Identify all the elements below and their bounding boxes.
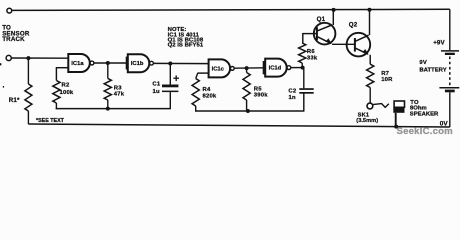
svg-text:33k: 33k [307, 56, 318, 62]
op-amp gate IC1b (NAND) [128, 54, 154, 72]
label R5 390k [254, 86, 268, 98]
svg-text:1u: 1u [153, 89, 160, 95]
svg-text:820k: 820k [203, 94, 217, 100]
node junction R5 bottom [246, 109, 250, 113]
resistor R2 [53, 81, 60, 110]
op-amp gate IC1a (NAND) [68, 54, 94, 72]
svg-text:IC1b: IC1b [131, 61, 144, 67]
transistor Q2 [347, 33, 371, 57]
wire IC1c output to IC1d [234, 67, 263, 69]
label IC1b [131, 61, 144, 67]
wire IC1a lower input from R2 [56, 67, 68, 80]
svg-text:1n: 1n [289, 95, 296, 101]
wire IC1c lower input from R4 [196, 73, 209, 79]
connector jack plug symbol [393, 101, 404, 127]
wire battery dashed middle [449, 57, 451, 87]
wire bottom 0V rail [28, 124, 449, 127]
label IC1d [269, 66, 282, 72]
node junction R5 top [245, 66, 249, 70]
label C1 + polarity [173, 75, 179, 81]
wire Q1 collector to rail [332, 10, 334, 25]
wire IC1d input tie bar [263, 61, 265, 74]
label R1* [9, 97, 20, 104]
transistor Q1 [314, 23, 336, 45]
watermark SeekIC.com [397, 126, 453, 137]
label NOTE block [168, 27, 204, 48]
wire SK1 hook contact [373, 104, 389, 108]
svg-text:390k: 390k [254, 93, 268, 99]
terminal T1 (top, to sensor track) [7, 8, 12, 13]
resistor R6 [299, 43, 306, 68]
resistor R5 [243, 68, 250, 111]
svg-text:SeekIC.com: SeekIC.com [397, 126, 453, 137]
label R6 33k [307, 49, 318, 62]
resistor R1 [25, 58, 32, 124]
node junction IC1d out / R6 / C2 [301, 66, 305, 70]
svg-text:C2: C2 [288, 89, 296, 95]
wire Q2 emitter to R7 [369, 55, 371, 64]
svg-text:IC1a: IC1a [71, 61, 84, 67]
wire Q1 emitter to Q2 base [332, 43, 355, 45]
label R7 10R [381, 71, 393, 83]
label R4 820k [203, 87, 217, 99]
label *SEE TEXT [36, 118, 65, 124]
node junction jack on rail [394, 125, 398, 129]
svg-text:10R: 10R [381, 77, 393, 83]
node junction C1 top [168, 62, 172, 66]
resistor R4 [192, 79, 199, 112]
svg-text:9V: 9V [419, 60, 427, 66]
terminal T2 (bottom, to sensor track) [6, 55, 11, 60]
label C2 1n [288, 89, 296, 101]
svg-text:R4: R4 [203, 87, 211, 93]
wire R2-R3-C1 bottom join [56, 108, 171, 110]
label 0V [440, 120, 449, 127]
svg-text:R2: R2 [62, 83, 70, 89]
svg-text:IC1d: IC1d [269, 66, 282, 72]
svg-text:R6: R6 [307, 49, 315, 55]
svg-text:Q1: Q1 [317, 16, 326, 23]
svg-text:TRACK: TRACK [2, 36, 25, 43]
label TO SENSOR TRACK [2, 24, 30, 43]
svg-text:R1*: R1* [9, 97, 20, 104]
wire T2 to IC1a input [11, 57, 68, 59]
wire Q1 base from R6 top [303, 33, 317, 43]
svg-text:R3: R3 [114, 85, 122, 91]
node junction Q2 collector on rail [368, 8, 372, 12]
label IC1a [71, 61, 84, 67]
wire R4-R5-C2 bottom join [195, 93, 304, 111]
wire IC1b output to IC1c [153, 62, 209, 64]
battery B1 cell 1 [441, 51, 459, 55]
speck left edge [0, 63, 4, 87]
battery B1 cell 2 [439, 88, 459, 92]
svg-text:*SEE TEXT: *SEE TEXT [36, 118, 65, 124]
label R2 100k [60, 83, 74, 97]
svg-text:100k: 100k [60, 90, 74, 96]
label Q2 [349, 22, 358, 29]
op-amp gate IC1c (NAND) [209, 59, 235, 77]
wire Q2 collector to rail [369, 10, 371, 36]
node junction IC1a out / R3 [106, 61, 110, 65]
label TO 8Ohm SPEAKER [410, 100, 439, 118]
svg-text:47k: 47k [114, 92, 125, 98]
wire top +9V rail [12, 9, 450, 10]
resistor R3 [104, 63, 111, 109]
op-amp gate IC1d (NAND) [265, 59, 291, 77]
label SK1 (3.5mm) [356, 112, 378, 124]
resistor R7 [367, 64, 374, 103]
terminal SK1 socket [367, 103, 373, 109]
svg-text:IC1c: IC1c [212, 66, 225, 72]
capacitor C1 (electrolytic) [162, 64, 178, 110]
label +9V [433, 39, 445, 46]
svg-text:R5: R5 [254, 86, 262, 92]
node junction T2/R1 [26, 56, 30, 60]
wire IC1a output to IC1b [94, 62, 127, 64]
svg-text:+9V: +9V [433, 39, 445, 46]
capacitor C2 [299, 68, 313, 94]
node junction R3 bottom [106, 107, 110, 111]
svg-text:SPEAKER: SPEAKER [410, 111, 439, 117]
node junction Q1 collector on rail [332, 8, 336, 12]
svg-text:(3.5mm): (3.5mm) [356, 118, 378, 124]
svg-text:Q2 IS BFY51: Q2 IS BFY51 [168, 42, 204, 48]
svg-text:C1: C1 [152, 81, 160, 87]
label Q1 [317, 16, 326, 23]
label C1 1u [152, 81, 160, 94]
svg-text:Q2: Q2 [349, 22, 358, 29]
svg-text:BATTERY: BATTERY [419, 67, 446, 73]
label R3 47k [114, 85, 125, 97]
wire battery top lead [449, 9, 451, 50]
wire IC1d output node [291, 67, 304, 69]
label 9V BATTERY [419, 60, 446, 73]
wire battery bottom lead [449, 92, 451, 127]
label IC1c [212, 66, 225, 72]
wire IC1b input tie bar [126, 57, 128, 70]
